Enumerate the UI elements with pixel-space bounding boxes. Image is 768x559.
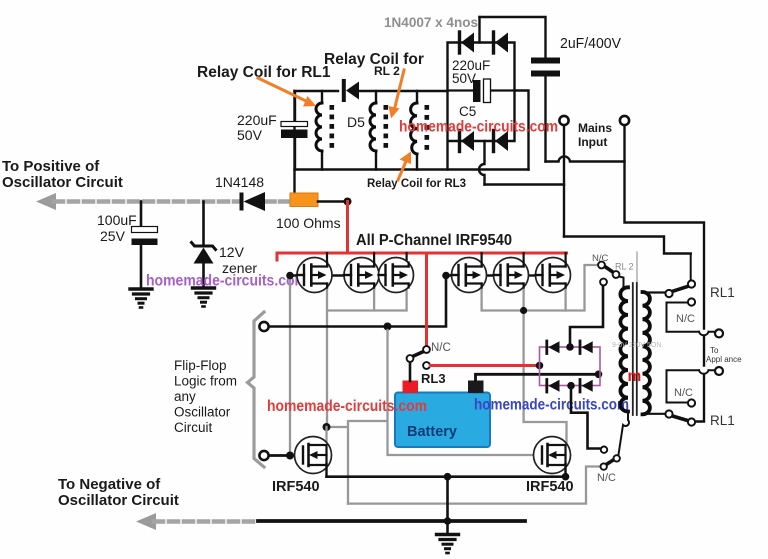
svg-text:50V: 50V <box>452 71 476 86</box>
svg-text:100 Ohms: 100 Ohms <box>276 215 341 231</box>
relay RL2 changeover (transformer primary top) <box>598 262 623 287</box>
label To Positive of Oscillator Circuit <box>2 158 123 191</box>
node diode box right junction <box>595 371 603 379</box>
svg-text:RL1: RL1 <box>710 285 735 300</box>
transistor M2 IRF9540 <box>344 258 379 293</box>
wire gray M6 to RL2 contact <box>566 265 598 311</box>
svg-text:Logic from: Logic from <box>174 374 237 389</box>
relay coil RL1 <box>316 91 334 170</box>
svg-text:100uF: 100uF <box>97 212 137 228</box>
capacitor 100uF 25V <box>132 202 158 289</box>
node diode box left junction <box>536 362 544 370</box>
transistor left IRF540 <box>295 437 332 474</box>
svg-text:Mains: Mains <box>578 121 612 135</box>
diode charger top-right <box>580 341 593 354</box>
svg-text:Oscillator Circuit: Oscillator Circuit <box>58 492 179 509</box>
wire right IRF540 source to rail end <box>564 464 566 477</box>
wire relay box top rail <box>295 90 448 92</box>
diode bridge top-left 1N4007 <box>460 32 475 53</box>
svg-text:RL1: RL1 <box>710 413 735 428</box>
svg-text:homemade-circuits.com: homemade-circuits.com <box>267 398 427 415</box>
svg-text:homemade-circuits.com: homemade-circuits.com <box>146 273 307 290</box>
node M5 source rail junction <box>520 307 527 314</box>
svg-text:Oscillator Circuit: Oscillator Circuit <box>2 174 123 191</box>
node left IRF540 gate junction <box>286 452 294 460</box>
diode D5 <box>344 81 359 100</box>
wire RL1 upper throw up to mains <box>690 254 692 281</box>
mains terminal left <box>559 116 568 125</box>
hop mains wire over lower bracket <box>699 370 709 373</box>
node diode box top center <box>566 343 574 351</box>
svg-text:All P-Channel IRF9540: All P-Channel IRF9540 <box>356 232 512 249</box>
battery pack <box>395 381 490 448</box>
label To Negative of Oscillator Circuit <box>58 476 179 509</box>
label Flip-Flop Logic <box>174 358 237 435</box>
wire outer top loop to 2uF cap <box>480 17 546 58</box>
bridge rectifier box 1N4007 <box>448 43 515 170</box>
svg-text:Flip-Flop: Flip-Flop <box>174 358 227 373</box>
wire ground stub <box>446 521 449 534</box>
diode charger top-left <box>547 341 560 354</box>
terminal appliance upper <box>715 329 723 337</box>
node M1 gate junction <box>286 272 294 280</box>
svg-text:homemade-circuits.com: homemade-circuits.com <box>474 397 629 414</box>
label 12V zener <box>219 244 257 276</box>
capacitor 220uF 50V (relay side) <box>281 92 308 170</box>
transistor M4 IRF9540 <box>452 258 487 293</box>
label To Appliance <box>706 346 742 364</box>
diode box (charger bridge) purple <box>540 347 601 386</box>
transformer primary winding <box>620 287 628 412</box>
svg-text:m: m <box>628 368 642 385</box>
svg-text:C5: C5 <box>459 104 476 119</box>
svg-text:To: To <box>710 346 719 355</box>
wire dashed oscillator negative arrow <box>136 513 258 530</box>
svg-text:1N4007 x 4nos: 1N4007 x 4nos <box>384 15 478 30</box>
diode 1N4148 <box>242 192 266 211</box>
node source rail ground junction <box>444 473 452 481</box>
hop mains wire over NC bracket <box>699 332 709 335</box>
wire primary bottom hook <box>619 412 630 455</box>
ground main <box>437 535 459 554</box>
wire source rail <box>327 475 566 478</box>
label 100uF 25V <box>97 212 137 244</box>
wire M5-M6 link <box>529 274 536 276</box>
wire dashed oscillator positive line with arrow <box>36 193 289 210</box>
wire gray junction down left of battery to under-battery run <box>327 330 543 504</box>
diode charger bottom-left <box>547 380 560 393</box>
svg-text:IRF540: IRF540 <box>526 479 574 495</box>
svg-text:Appl ance: Appl ance <box>706 355 742 364</box>
wire 2uF bottom to right mains vertical <box>546 156 625 161</box>
transistor M5 IRF9540 <box>494 258 529 293</box>
resistor 100 Ohms <box>290 193 318 207</box>
relay RL1 lower contact set <box>665 399 695 425</box>
svg-text:RL3: RL3 <box>421 371 446 386</box>
svg-text:2uF/400V: 2uF/400V <box>560 36 621 52</box>
svg-text:D5: D5 <box>347 114 365 130</box>
wire gray gate bus left (M1 and left IRF540) <box>289 279 291 452</box>
svg-text:N/C: N/C <box>676 313 695 325</box>
relay RL1 upper contact set <box>665 280 695 305</box>
wire secondary bottom to RL1 lower pole <box>646 413 665 415</box>
svg-text:To Positive of: To Positive of <box>2 158 100 175</box>
capacitor 2uF/400V <box>531 58 560 162</box>
wire ground drop <box>446 477 449 521</box>
arrow to RL3 coil <box>398 152 411 181</box>
wire right mains terminal down <box>625 125 705 422</box>
arrow to RL2 coil <box>389 70 405 119</box>
diode bridge top-right 1N4007 <box>494 32 509 53</box>
node bottom line junction <box>444 517 452 525</box>
zener diode 12V <box>192 202 216 288</box>
terminal flip-flop bottom input <box>259 451 268 460</box>
bracket flip-flop <box>248 312 265 467</box>
svg-text:RL 2: RL 2 <box>615 262 634 272</box>
wire left mains terminal down (hop) to staircase <box>563 125 565 237</box>
svg-text:To Negative of: To Negative of <box>58 476 161 493</box>
label Relay Coil for RL2 <box>324 51 424 78</box>
wire red rail down to battery changeover <box>425 253 428 346</box>
label Mains Input <box>578 121 612 149</box>
relay RL3 changeover at battery <box>407 346 430 381</box>
wire gray M1 bottom and left trio source rail <box>327 284 407 428</box>
arrow to RL1 coil <box>258 78 316 107</box>
relay coil RL2 <box>370 91 388 170</box>
terminal flip-flop top input <box>259 322 268 331</box>
svg-text:any: any <box>174 389 196 404</box>
svg-text:Input: Input <box>578 135 607 149</box>
wire bridge AC bottom to left mains terminal <box>485 183 565 185</box>
wire black flip-flop top input line <box>269 278 447 327</box>
wire red gate rail IRF9540 <box>277 253 567 260</box>
wire M4-M6 source taps to red rail <box>482 253 566 267</box>
terminal appliance lower <box>715 367 723 375</box>
transformer secondary winding <box>643 292 650 414</box>
wire RL1 upper NC bracket <box>667 303 716 332</box>
svg-text:Relay Coil for RL1: Relay Coil for RL1 <box>197 64 331 81</box>
svg-text:220uF: 220uF <box>237 112 277 128</box>
svg-text:25V: 25V <box>100 228 126 244</box>
svg-text:9-0V 220V 5ON.: 9-0V 220V 5ON. <box>612 342 663 349</box>
transistor M6 IRF9540 <box>536 258 571 293</box>
bracket RL 2 <box>636 252 638 283</box>
transistor M1 IRF9540 <box>297 258 332 293</box>
transistor M3 IRF9540 <box>379 258 414 293</box>
wire battery plus to diode box right <box>476 374 599 380</box>
wire diode box top to RL2 contact <box>570 286 603 348</box>
svg-text:N/C: N/C <box>431 342 451 354</box>
ground (zener) <box>193 288 215 307</box>
diode bridge bottom-left 1N4007 <box>460 131 475 152</box>
wire M1-M3 source taps to red rail <box>327 253 407 267</box>
node left IRF540 drain junction <box>323 423 331 431</box>
transistor right IRF540 <box>534 437 571 474</box>
svg-text:Oscillator: Oscillator <box>174 405 231 420</box>
wire bridge DC right to relay rail <box>515 91 529 170</box>
svg-text:homemade-circuits.com: homemade-circuits.com <box>399 119 558 136</box>
node source rail right end <box>562 473 570 481</box>
svg-text:1N4148: 1N4148 <box>215 174 264 190</box>
relay coil RL3 (in box) <box>411 91 430 170</box>
svg-text:Circuit: Circuit <box>174 420 213 435</box>
svg-text:12V: 12V <box>219 244 245 260</box>
svg-text:N/C: N/C <box>674 387 693 399</box>
label 220uF 50V (relay side) <box>237 112 277 143</box>
capacitor C5 <box>448 79 515 103</box>
svg-text:N/C: N/C <box>597 472 616 484</box>
wire bridge AC top to outer loop <box>478 17 480 43</box>
wire M2-M3 link <box>379 274 384 276</box>
wire red overlay at crossing <box>425 321 428 332</box>
node flip-flop top line junction <box>384 323 392 331</box>
wire resistor to junction <box>318 200 348 203</box>
mains terminal right <box>620 116 629 125</box>
label 220uF 50V (C5) <box>452 58 490 86</box>
wire M4-M5 link <box>446 274 501 276</box>
wire RL1 lower NC bracket <box>667 370 716 402</box>
node resistor junction <box>344 198 352 206</box>
wire secondary top to RL1 pole <box>646 291 665 293</box>
wire gray left IRF540 drain <box>325 427 327 445</box>
diode charger bottom-right <box>580 380 593 393</box>
svg-text:N/C: N/C <box>592 253 609 264</box>
wire oscillator negative solid line <box>258 519 525 523</box>
svg-text:RL 2: RL 2 <box>374 64 400 78</box>
wire M1-M2 link <box>290 274 351 276</box>
wire relay box left edge down to dashed line <box>293 91 295 202</box>
wire black flip-flop bottom input line <box>269 454 304 457</box>
wire gray M5 drop to battery region <box>524 311 567 446</box>
ground (100uF) <box>130 289 152 308</box>
wire gray bottom return run <box>348 467 600 504</box>
svg-text:Battery: Battery <box>407 424 457 440</box>
wire left IRF540 source to rail <box>325 464 327 477</box>
transformer core <box>633 283 637 415</box>
wire bridge AC bottom with hop over rail <box>479 141 485 185</box>
svg-text:50V: 50V <box>237 127 263 143</box>
wire red from resistor junction to rail <box>346 202 349 254</box>
wire red relay RL3 to diode bridge <box>431 364 539 367</box>
wire diode box bottom to lower changeover <box>571 386 600 449</box>
diode bridge bottom-right 1N4007 <box>494 131 509 152</box>
node diode box bottom center <box>567 382 575 390</box>
svg-text:Relay Coil for RL3: Relay Coil for RL3 <box>367 178 466 190</box>
wire gray right trio source rail <box>482 284 566 311</box>
wire relay box bottom rail <box>295 168 529 170</box>
wire mains staircase left <box>564 237 691 254</box>
svg-text:IRF540: IRF540 <box>272 479 320 495</box>
node M4 gate junction <box>442 272 450 280</box>
relay changeover (primary bottom) <box>601 447 620 470</box>
